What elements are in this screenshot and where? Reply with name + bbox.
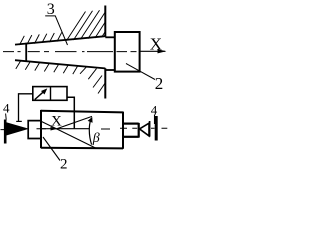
centerline (bottom figure axis)	[1, 128, 168, 129]
right centre bar	[155, 116, 158, 141]
label 4 leader (left)	[5, 114, 8, 120]
svg-text:β: β	[92, 131, 100, 146]
svg-text:3: 3	[47, 1, 55, 18]
right stub right face	[138, 123, 140, 138]
hatch area between bottom generator and wall	[80, 67, 106, 94]
left centre bar	[4, 120, 7, 144]
body bottom line	[41, 147, 123, 150]
angle arc	[89, 118, 92, 145]
wall face upper segment	[104, 6, 106, 37]
neck bottom line (wall to head)	[105, 69, 114, 71]
X dimension right arrowhead	[51, 127, 58, 131]
wall face lower segment	[104, 68, 106, 98]
svg-text:2: 2	[60, 157, 68, 170]
right stub top line	[123, 122, 139, 124]
right centre cone	[140, 123, 150, 136]
indicator needle	[35, 92, 43, 99]
hatch area between top generator and wall	[67, 10, 106, 40]
body left edge	[40, 110, 42, 148]
wire foot tick	[16, 120, 22, 122]
indicator divider	[50, 87, 52, 101]
right stub bottom line	[123, 136, 139, 138]
centerline (top figure axis)	[3, 51, 137, 53]
label 4 leader (right)	[154, 115, 156, 125]
svg-text:2: 2	[155, 74, 164, 93]
cone small end face	[25, 43, 27, 62]
gauge head rectangle	[115, 32, 140, 72]
indicator stem bracket	[67, 97, 74, 128]
left centre cone	[7, 123, 28, 135]
angle arc arrowhead	[88, 117, 93, 123]
hatch ticks below bottom generator	[16, 61, 78, 74]
label 2 leader (top figure)	[126, 64, 155, 80]
label 3 leader	[45, 16, 67, 45]
cone bottom generator line	[15, 60, 105, 68]
axis solid segment to arc	[58, 128, 90, 130]
neck top line (wall to head)	[105, 36, 114, 38]
body right edge	[122, 112, 124, 149]
left journal stub	[28, 121, 41, 139]
X dimension arrow line	[42, 128, 57, 130]
generator line A (descending)	[41, 121, 96, 148]
right centre cone base bar	[149, 121, 151, 137]
cone top generator line	[15, 36, 105, 44]
X axis arrow (top figure)	[140, 50, 166, 52]
body top line	[41, 111, 123, 113]
wire from indicator to left centre	[19, 94, 33, 122]
svg-text:X: X	[150, 34, 162, 53]
generator line B (ascending)	[56, 116, 92, 129]
hatch ticks above top generator	[20, 32, 62, 45]
svg-text:4: 4	[3, 101, 10, 116]
label 2 leader (bottom figure)	[43, 137, 60, 161]
dial indicator boxes	[33, 87, 67, 101]
